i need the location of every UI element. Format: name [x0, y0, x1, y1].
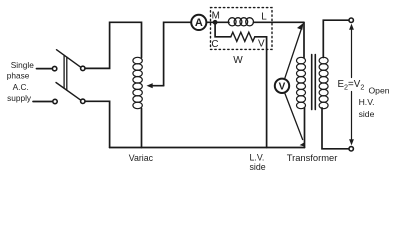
wire: primary bottom lead to rail [304, 108, 306, 148]
svg-text:L: L [261, 11, 267, 22]
wire: lead from "Single" label to upper supply terminal [37, 68, 52, 70]
svg-text:L.V.: L.V. [250, 152, 265, 162]
node: upper supply input terminal [52, 66, 56, 70]
transformer primary winding [297, 57, 306, 108]
variac winding (coil) [133, 57, 142, 108]
wire: bottom rail [110, 147, 305, 149]
svg-text:W: W [233, 55, 243, 66]
node: upper switch hinge terminal [81, 66, 85, 70]
node: lower supply input terminal [53, 99, 57, 103]
svg-text:V: V [258, 39, 265, 50]
switch S linkage bar (two parallel lines joining blades) [63, 55, 65, 88]
wattmeter W dotted enclosure [211, 8, 273, 50]
svg-text:H.V.: H.V. [359, 97, 375, 107]
wire: secondary bottom lead to open H.V. terminal [322, 108, 349, 149]
node: open H.V. terminal (bottom) [349, 147, 353, 151]
wire: lower switch terminal down to bottom rail [85, 101, 110, 147]
voltmeter V across primary [275, 79, 289, 93]
node: open H.V. terminal (top) [349, 18, 353, 22]
E2 measurement arrow (down) [351, 92, 353, 140]
ammeter A [191, 15, 206, 30]
wire: ammeter to wattmeter M terminal [207, 21, 213, 23]
label Open H.V. side [359, 86, 390, 120]
svg-text:V: V [279, 82, 286, 93]
svg-text:A: A [195, 17, 203, 29]
svg-text:side: side [359, 109, 375, 119]
switch S blade 2 (lower pole, open knife blade) [56, 83, 81, 101]
svg-text:C: C [211, 39, 218, 50]
transformer secondary winding [319, 57, 328, 108]
svg-text:Variac: Variac [129, 153, 154, 163]
wire: pressure coil to V terminal then down to rail [255, 37, 267, 148]
wire: M junction down to pressure coil [215, 22, 231, 37]
variac wiper arrow [152, 85, 164, 87]
wire: voltmeter upper lead with arrow to primary top [285, 30, 301, 79]
svg-text:Open: Open [369, 86, 390, 96]
svg-text:M: M [212, 10, 220, 21]
wire: variac bottom lead to rail [141, 109, 143, 148]
wire: transformer primary top lead [303, 22, 305, 57]
wire: upper switch terminal to riser [85, 22, 141, 68]
svg-text:supply: supply [7, 93, 32, 103]
wattmeter pressure coil (resistor) [231, 32, 255, 41]
svg-text:phase: phase [7, 71, 30, 81]
svg-text:Single: Single [11, 60, 34, 70]
svg-text:side: side [250, 162, 266, 172]
node: junction dot at M [213, 20, 218, 25]
wire: current coil to L and out to transformer [254, 21, 304, 23]
svg-text:A.C.: A.C. [13, 82, 29, 92]
wire: voltmeter lower lead with arrow to primary bottom [285, 93, 303, 140]
switch S blade 1 (upper pole, open knife blade) [57, 50, 81, 67]
wire: lead from "supply" label to lower supply terminal [33, 101, 52, 103]
label L.V. side [250, 152, 266, 172]
wire: wiper to ammeter [164, 22, 191, 85]
node: lower switch hinge terminal [81, 99, 85, 103]
svg-text:Transformer: Transformer [287, 152, 338, 163]
svg-text:E2=V2: E2=V2 [338, 79, 365, 91]
wattmeter current coil [215, 21, 229, 23]
label: Single phase A.C. supply [7, 60, 34, 103]
wire: secondary top lead to open H.V. terminal [323, 20, 349, 57]
transformer core (two bars) [311, 55, 313, 110]
E2 measurement arrow (up) [351, 30, 353, 78]
